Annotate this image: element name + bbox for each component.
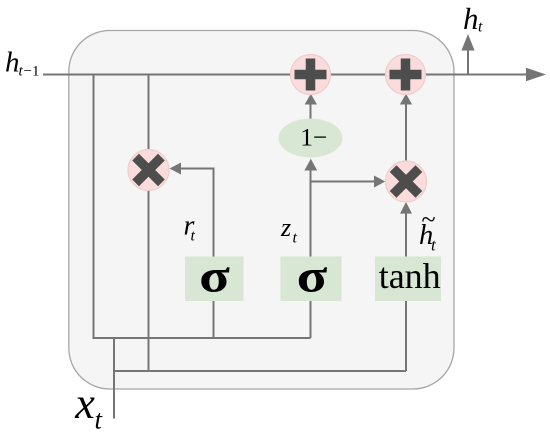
- svg-text:~: ~: [422, 205, 436, 234]
- svg-text:t: t: [191, 228, 196, 245]
- svg-text:x: x: [74, 379, 95, 428]
- svg-text:t: t: [95, 405, 104, 435]
- svg-text:h: h: [463, 1, 479, 36]
- svg-text:σ: σ: [297, 251, 328, 303]
- svg-text:t: t: [293, 230, 298, 247]
- svg-text:h: h: [5, 46, 20, 78]
- svg-text:tanh: tanh: [379, 256, 441, 296]
- svg-text:σ: σ: [199, 251, 230, 303]
- svg-text:−1: −1: [24, 63, 40, 79]
- svg-text:z: z: [280, 213, 291, 242]
- svg-text:1−: 1−: [300, 123, 327, 152]
- svg-text:t: t: [478, 18, 483, 35]
